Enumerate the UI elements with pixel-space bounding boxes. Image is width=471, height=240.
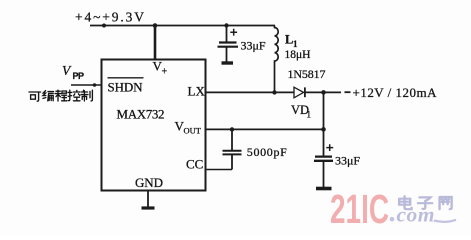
svg-text:33μF: 33μF [241,39,266,53]
svg-text:+4~+9.3V: +4~+9.3V [75,10,144,25]
svg-text:1N5817: 1N5817 [288,67,326,81]
svg-text:V: V [62,63,72,78]
svg-text:5000pF: 5000pF [247,145,287,159]
svg-text:LX: LX [188,84,206,99]
svg-text:com: com [397,203,436,227]
svg-text:SHDN: SHDN [108,80,144,95]
svg-text:+: + [162,67,168,78]
svg-text:CC: CC [186,157,203,172]
svg-text:+12V / 120mA: +12V / 120mA [353,85,438,100]
svg-text:MAX732: MAX732 [117,107,165,122]
svg-text:GND: GND [135,175,163,190]
svg-text:1: 1 [307,110,312,120]
svg-text:21IC: 21IC [330,186,389,232]
svg-text:1: 1 [293,39,298,49]
svg-text:18μH: 18μH [285,49,311,61]
svg-text:PP: PP [73,71,85,81]
svg-text:33μF: 33μF [335,154,360,168]
svg-text:OUT: OUT [184,126,202,136]
